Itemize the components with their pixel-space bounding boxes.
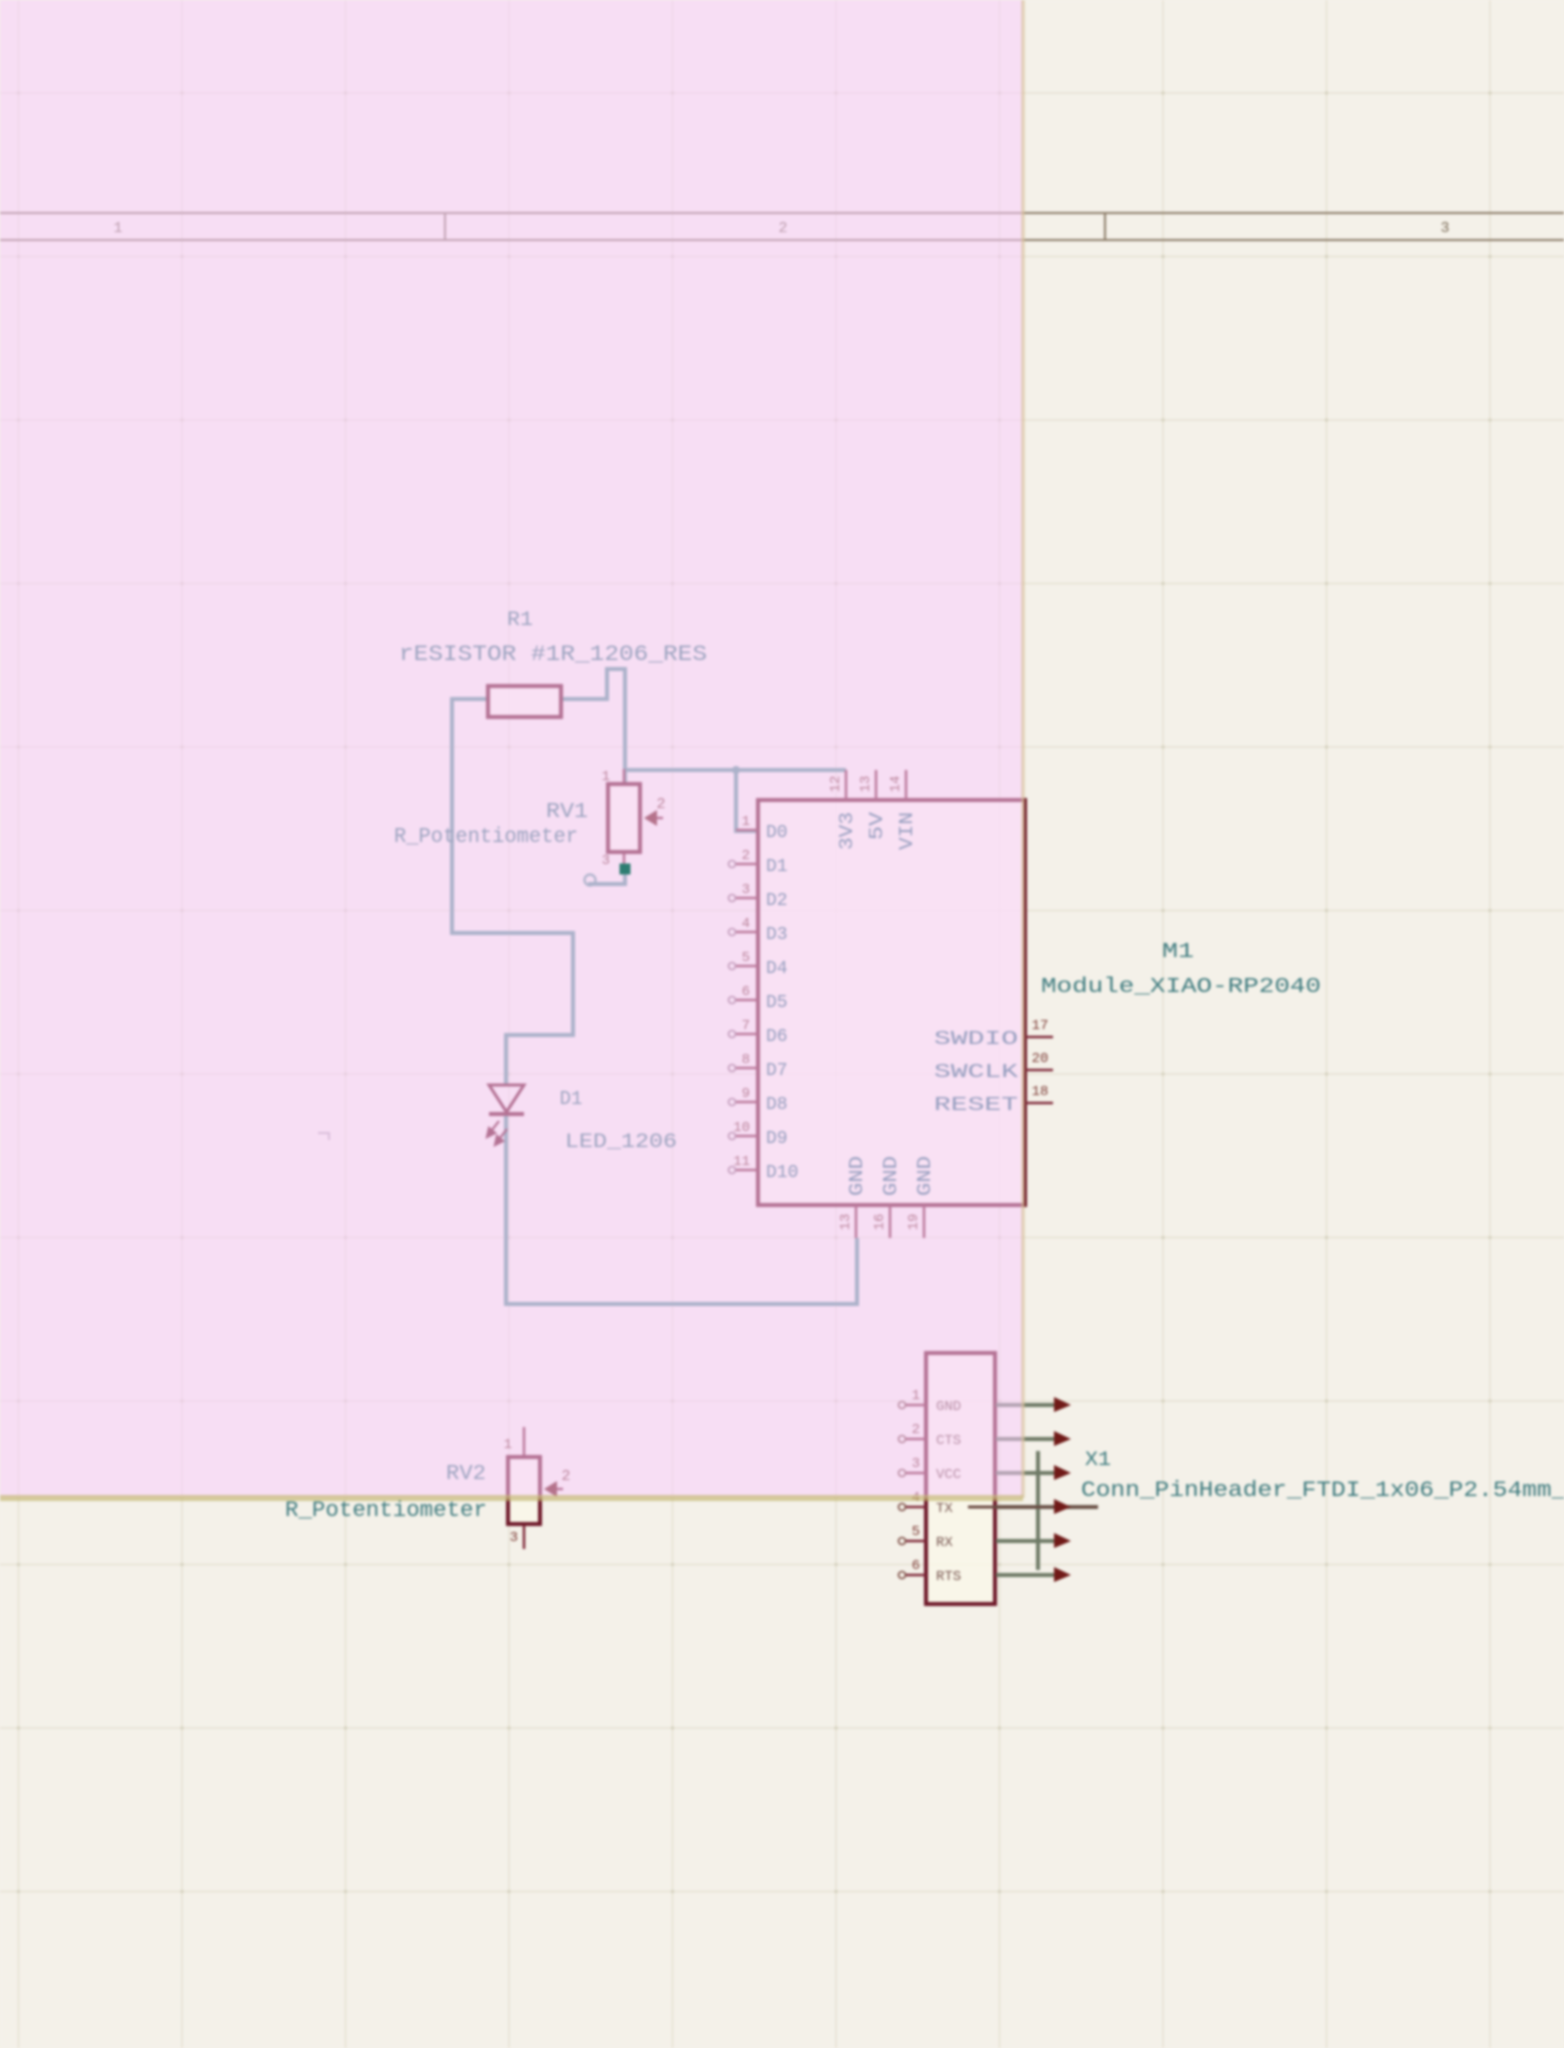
wire end arrow row 4 (1054, 1499, 1071, 1514)
LED D1 (489, 1085, 524, 1114)
X1 pin 1 GND (899, 1388, 962, 1415)
svg-text:X1: X1 (1085, 1449, 1111, 1472)
M1 pin 1 D0 (736, 814, 788, 843)
wire end arrow row 2 (1054, 1431, 1071, 1446)
junction at D0 branch (732, 766, 740, 774)
M1 bottom pin 19 GND (906, 1156, 936, 1238)
potentiometer RV1 body (608, 769, 640, 865)
M1 pin 7 D6 (729, 1018, 788, 1047)
M1 pin 3 D2 (729, 882, 788, 911)
M1 pin 10 D9 (729, 1120, 788, 1149)
X1 pin 5 RX (899, 1524, 954, 1551)
wire end arrow row 3 (1054, 1465, 1071, 1480)
selection overlay (0, 0, 1024, 1498)
svg-text:20: 20 (1032, 1051, 1049, 1067)
wire RV1 pin1 net to M1 3V3 and D0 (625, 770, 846, 831)
X1 pin 4 TX (899, 1490, 954, 1517)
svg-text:3: 3 (1440, 220, 1449, 237)
X1 right side wires (996, 1405, 1098, 1575)
selection border bottom (0, 1495, 1023, 1501)
svg-text:R_Potentiometer: R_Potentiometer (285, 1498, 487, 1523)
M1 bottom pin 16 GND (872, 1156, 902, 1238)
wire RV1 pin3 hook (588, 865, 625, 884)
wire net R1 pin1 to LED D1 anode (452, 699, 573, 1085)
svg-text:M1: M1 (1162, 941, 1194, 964)
wire end arrow row 1 (1054, 1397, 1071, 1412)
stray mark (318, 1133, 329, 1140)
M1 right pin 17 SWDIO (934, 1018, 1053, 1050)
M1 right pin 20 SWCLK (934, 1051, 1053, 1083)
dangling wire end circle (585, 875, 596, 886)
RV2 wiper arrow pin 2 (544, 1481, 563, 1497)
M1 pin 5 D4 (729, 950, 788, 979)
svg-text:TX: TX (936, 1501, 953, 1517)
resistor R1 (488, 686, 561, 717)
M1 bottom pin 13 GND (838, 1156, 868, 1238)
RV1 wiper arrow pin 2 (644, 810, 663, 826)
M1 pin 4 D3 (729, 916, 788, 945)
X1 pin 2 CTS (899, 1422, 962, 1449)
M1 pin 11 D10 (729, 1154, 799, 1183)
wire LED cathode to M1 GND (506, 1116, 857, 1304)
M1 pin 8 D7 (729, 1052, 788, 1081)
net tie square on RV1 pin3 (620, 864, 631, 875)
M1 pin 9 D8 (729, 1086, 788, 1115)
selection border right (1021, 0, 1025, 1498)
svg-text:Module_XIAO-RP2040: Module_XIAO-RP2040 (1041, 976, 1321, 999)
wire R1 pin2 up-over to RV1 pin1 (561, 669, 625, 784)
X1 pin 3 VCC (899, 1456, 962, 1483)
X1 row4 dark line through box (968, 1506, 1098, 1509)
connector X1 body (926, 1353, 995, 1604)
svg-text:18: 18 (1032, 1084, 1049, 1100)
M1 top pin 14 VIN (888, 770, 918, 850)
X1 pin 6 RTS (899, 1558, 962, 1585)
LED light arrows (487, 1121, 507, 1145)
M1 top pin 13 5V (858, 770, 888, 840)
wire end arrow row 6 (1054, 1567, 1071, 1582)
M1 top pin 12 3V3 (828, 770, 858, 850)
svg-text:5: 5 (912, 1524, 920, 1540)
svg-text:3: 3 (510, 1530, 518, 1546)
svg-text:RTS: RTS (936, 1569, 961, 1585)
M1 pin 2 D1 (729, 848, 788, 877)
svg-text:6: 6 (912, 1558, 920, 1574)
svg-text:17: 17 (1032, 1018, 1049, 1034)
svg-text:Conn_PinHeader_FTDI_1x06_P2.54: Conn_PinHeader_FTDI_1x06_P2.54mm_V (1081, 1478, 1564, 1503)
sheet frame top border (0, 213, 1564, 240)
M1 right pin 18 RESET (934, 1084, 1053, 1116)
wire end arrow row 5 (1054, 1533, 1071, 1548)
M1 pin 6 D5 (729, 984, 788, 1013)
potentiometer RV2 body (508, 1427, 540, 1549)
svg-text:RX: RX (936, 1535, 953, 1551)
module M1 body (758, 800, 1025, 1205)
